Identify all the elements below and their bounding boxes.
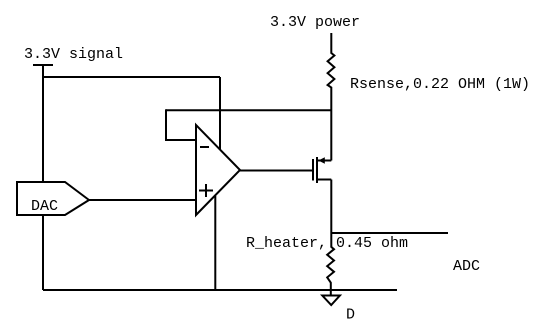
svg-text:ADC: ADC [453,258,480,275]
svg-text:D: D [346,306,355,323]
svg-text:R_heater, 0.45 ohm: R_heater, 0.45 ohm [246,235,408,252]
svg-text:3.3V power: 3.3V power [270,14,360,31]
svg-text:Rsense,0.22 OHM (1W): Rsense,0.22 OHM (1W) [350,76,530,93]
svg-text:3.3V signal: 3.3V signal [24,46,123,63]
svg-text:DAC: DAC [31,198,58,215]
